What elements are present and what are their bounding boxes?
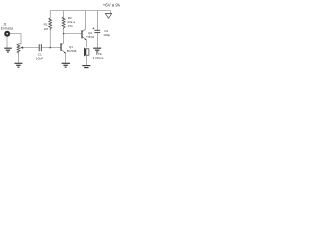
wire wiper to C1 — [23, 47, 39, 49]
svg-text:+6V a 9V: +6V a 9V — [103, 2, 120, 7]
C2 plus sign — [92, 28, 94, 30]
input jack J1 — [5, 32, 9, 36]
resistor R2 — [62, 11, 65, 34]
transistor Q1 — [61, 34, 66, 63]
capacitor C1 — [39, 44, 41, 51]
R2 labels — [67, 16, 75, 28]
svg-text:10nF: 10nF — [36, 56, 43, 60]
FTE labels — [93, 52, 104, 60]
R1 labels — [44, 23, 49, 31]
wire speaker to ground — [85, 55, 87, 65]
node junction R2/collector/Q2 base — [63, 33, 65, 35]
capacitor C2 electrolytic — [94, 11, 100, 48]
potentiometer P1 — [17, 44, 20, 54]
svg-text:TIP31: TIP31 — [86, 35, 95, 39]
power supply terminal +6V a 9V — [105, 11, 111, 19]
svg-text:Entrada: Entrada — [1, 27, 13, 31]
ground (input jack) — [4, 48, 12, 52]
wire C1 to Q1 base — [41, 47, 61, 49]
ground (speaker) — [82, 66, 90, 68]
svg-text:47k: 47k — [68, 24, 73, 28]
svg-text:1M: 1M — [44, 27, 49, 31]
+V rail — [50, 10, 110, 12]
svg-text:4 Ohms: 4 Ohms — [93, 56, 104, 60]
wire coupling Q1 collector to Q2 base — [64, 33, 82, 35]
+6V a 9V label — [103, 2, 121, 7]
C1 labels — [36, 52, 43, 60]
Q1 labels — [67, 45, 77, 53]
wire jack to ground — [6, 36, 8, 47]
ground (C2) — [93, 48, 101, 52]
svg-text:BC548: BC548 — [67, 49, 77, 53]
speaker FTE — [84, 47, 89, 56]
svg-text:100µ: 100µ — [103, 33, 110, 37]
resistor R1 — [49, 11, 52, 48]
transistor Q2 — [82, 11, 87, 48]
pot wiper arrow — [20, 47, 23, 49]
wire pot to ground — [18, 54, 20, 63]
wire jack to pot top — [10, 34, 22, 44]
node label J1 / Entrada — [1, 22, 13, 30]
ground (pot) — [14, 63, 22, 67]
C2 labels — [103, 29, 110, 37]
Q2 labels — [86, 31, 95, 39]
node junction R1/base — [49, 47, 51, 49]
ground (Q1 emitter) — [62, 63, 70, 67]
